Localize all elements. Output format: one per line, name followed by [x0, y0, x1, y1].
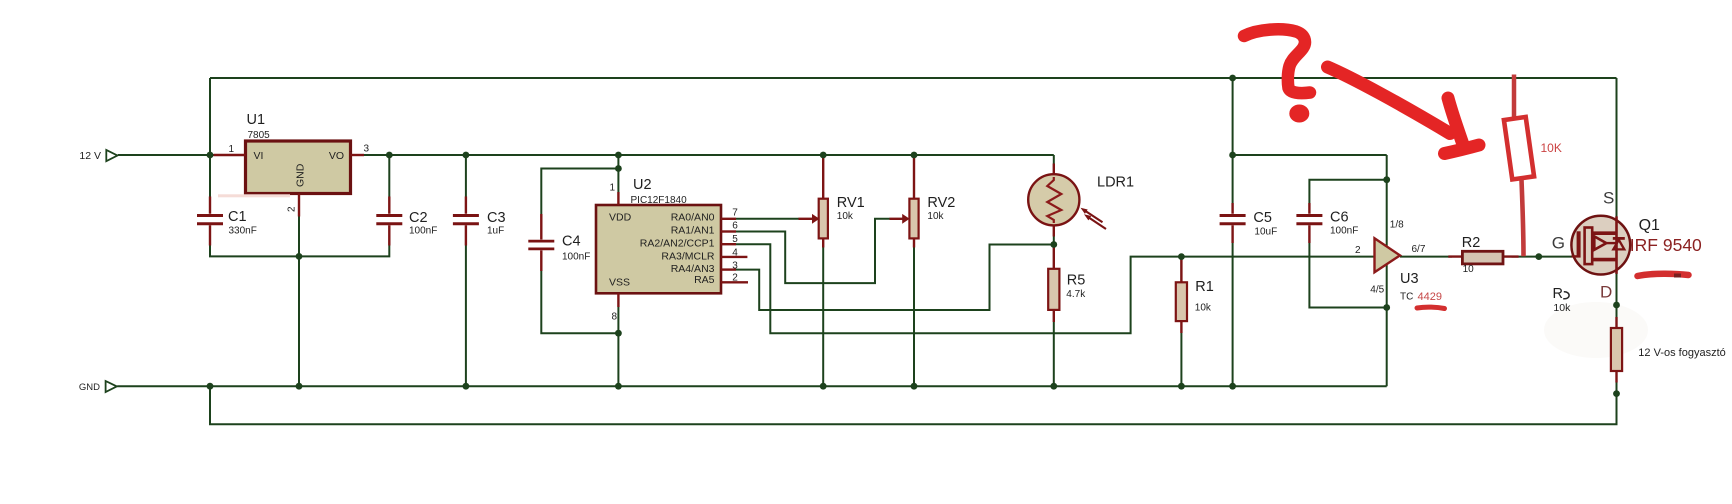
wire C3 vertical: [465, 155, 467, 386]
wire load bottom: [1616, 383, 1618, 425]
svg-text:6: 6: [732, 221, 738, 232]
wire S drop from top rail to Q1 source: [1616, 78, 1618, 220]
wire 12V input to U1: [118, 154, 214, 156]
resistor load 12V consumer: [1611, 317, 1726, 383]
erased element residue above C1 label: [218, 194, 290, 197]
wire R5 to GND rail: [1053, 322, 1055, 386]
wire bottom return loop: [210, 386, 1617, 424]
svg-text:RA5: RA5: [694, 274, 715, 286]
pin 2 U2 stub unconnected: [721, 281, 748, 283]
transistor Q1 IRF9540: [1552, 188, 1702, 301]
wire U2 pin7 to RV1 wiper: [736, 218, 799, 220]
pin 2 U1 GND stub: [298, 194, 300, 217]
svg-text:100nF: 100nF: [409, 226, 437, 237]
svg-text:1/8: 1/8: [1390, 219, 1404, 230]
junction load bottom node: [1613, 390, 1620, 397]
svg-text:S: S: [1603, 188, 1614, 207]
wire C1 top from 12V node: [209, 155, 211, 197]
wire R1 top: [1180, 257, 1182, 283]
svg-text:4/5: 4/5: [1370, 284, 1384, 295]
svg-text:100nF: 100nF: [1330, 226, 1358, 237]
svg-text:3: 3: [732, 261, 738, 272]
wire Q1 drain down to load: [1616, 271, 1618, 317]
wire U1 pin2 to GND rail: [298, 217, 300, 387]
svg-text:2: 2: [287, 206, 298, 212]
svg-text:RA1/AN1: RA1/AN1: [671, 225, 715, 237]
svg-text:TC: TC: [1400, 291, 1413, 302]
svg-text:7: 7: [732, 208, 738, 219]
pin 3 U1 VO stub: [351, 154, 365, 156]
junction GND R5: [1050, 383, 1057, 390]
svg-text:G: G: [1552, 234, 1565, 253]
svg-text:7805: 7805: [248, 130, 271, 141]
resistor R5: [1048, 245, 1086, 323]
wire C4 top link to VDD: [541, 169, 618, 215]
wire 12V branch to U3 supply: [1233, 154, 1387, 156]
capacitor C3: [453, 197, 506, 246]
svg-text:6/7: 6/7: [1412, 244, 1426, 255]
svg-text:C3: C3: [487, 210, 506, 226]
junction GND C3: [463, 383, 470, 390]
svg-text:4.7k: 4.7k: [1066, 289, 1086, 300]
junction C5 at top rail: [1229, 75, 1236, 82]
svg-text:5: 5: [732, 234, 738, 245]
svg-text:RA3/MCLR: RA3/MCLR: [661, 250, 715, 262]
wire U3 supply vertical: [1386, 155, 1388, 386]
wire LDR bottom to node: [1053, 237, 1055, 245]
annotation red wire above drawn resistor: [1512, 75, 1517, 118]
pin 8 U2 VSS stub: [617, 293, 619, 307]
wire U2 pin6 to RV2 wiper: [736, 219, 890, 283]
svg-text:10: 10: [1463, 264, 1475, 275]
svg-text:D: D: [1600, 282, 1612, 301]
junction C5 at 12V branch: [1229, 152, 1236, 159]
junction GND C5: [1229, 383, 1236, 390]
svg-text:RV2: RV2: [927, 195, 955, 211]
wire C6 loop to U3 supply: [1309, 180, 1386, 308]
wire R2 to Q1 gate: [1512, 256, 1572, 258]
wire U2 VDD to 5V rail: [617, 155, 619, 192]
svg-text:U1: U1: [247, 112, 266, 128]
svg-text:RA0/AN0: RA0/AN0: [671, 212, 715, 224]
svg-text:C1: C1: [228, 209, 247, 225]
svg-text:10k: 10k: [1553, 302, 1571, 314]
junction GND VSS: [615, 383, 622, 390]
potentiometer RV1: [812, 157, 865, 248]
svg-text:LDR1: LDR1: [1097, 175, 1134, 191]
junction U1 pin2 at C1 C2 link: [296, 253, 303, 260]
svg-text:VI: VI: [254, 150, 264, 162]
junction GND R1: [1178, 383, 1185, 390]
annotation hand drawn resistor 10K: [1504, 117, 1534, 179]
svg-text:VDD: VDD: [609, 212, 632, 224]
junction C6 top at U3 supply: [1383, 176, 1390, 183]
svg-text:R: R: [1553, 286, 1563, 302]
annotation red question mark: [1244, 29, 1310, 93]
wire C2 top from 5V rail: [388, 155, 390, 197]
resistor R3 label remnant: [1553, 286, 1572, 314]
wire RV1 vertical: [822, 248, 824, 387]
wire C4 bottom link to VSS: [541, 271, 618, 333]
wire GND rail: [117, 385, 1387, 387]
junction GND RV2: [911, 383, 918, 390]
photoresistor LDR1: [1028, 164, 1134, 237]
resistor R1: [1176, 257, 1214, 333]
svg-text:R2: R2: [1462, 235, 1481, 251]
wire C1 C2 bottom link: [210, 246, 389, 257]
regulator U1 7805: [246, 112, 351, 194]
svg-text:2: 2: [1355, 245, 1361, 256]
annotation red underline below 4429: [1417, 307, 1445, 308]
wire 5V rail from U1 VO to LDR: [364, 154, 1054, 156]
svg-text:330nF: 330nF: [229, 226, 257, 237]
wire C5 vertical: [1232, 78, 1234, 386]
svg-text:10uF: 10uF: [1254, 227, 1277, 238]
wire LDR top: [1053, 155, 1055, 164]
svg-text:3: 3: [364, 144, 370, 155]
pin 1 U2 VDD stub: [617, 192, 619, 205]
svg-text:C5: C5: [1253, 210, 1272, 226]
svg-text:100nF: 100nF: [562, 251, 590, 262]
svg-text:C6: C6: [1330, 210, 1349, 226]
junction drain node: [1613, 302, 1620, 309]
svg-text:PIC12F1840: PIC12F1840: [631, 195, 688, 206]
potentiometer RV2: [902, 157, 955, 248]
svg-text:VSS: VSS: [609, 276, 630, 288]
wire R1 bottom to GND rail: [1180, 333, 1182, 386]
svg-text:12 V: 12 V: [79, 150, 101, 162]
wire RV2 vertical: [913, 248, 915, 387]
buffer U3 TC4429: [1355, 219, 1442, 303]
junction C2 top: [386, 152, 393, 159]
svg-text:C4: C4: [562, 234, 581, 250]
svg-text:10k: 10k: [927, 211, 944, 222]
wire 12V top rail: [210, 77, 1617, 79]
junction C4 bottom at VSS: [615, 330, 622, 337]
wire top rail left drop to 12V node: [209, 78, 211, 155]
capacitor C6: [1296, 203, 1358, 243]
node GND input terminal: [79, 381, 117, 393]
junction 12V node at U1 input: [207, 152, 214, 159]
wire U2 VSS to GND rail: [617, 307, 619, 386]
svg-text:GND: GND: [79, 382, 100, 393]
svg-text:4: 4: [732, 248, 738, 259]
annotation red arrow shaft: [1328, 67, 1451, 134]
junction C3 top: [463, 152, 470, 159]
junction C6 bottom at U3 supply: [1383, 304, 1390, 311]
junction gate node: [1535, 253, 1542, 260]
pin 7 U2 stub: [721, 218, 736, 220]
svg-text:RA2/AN2/CCP1: RA2/AN2/CCP1: [640, 237, 715, 249]
capacitor C1: [197, 197, 257, 246]
svg-text:R5: R5: [1067, 272, 1086, 288]
junction C4 top at VDD: [615, 165, 622, 172]
junction LDR R5 divider node: [1050, 241, 1057, 248]
svg-text:1uF: 1uF: [487, 226, 504, 237]
resistor R2: [1448, 235, 1518, 275]
pin 4 U2 stub unconnected: [721, 256, 747, 258]
annotation red arrow head: [1445, 98, 1480, 154]
annotation red question mark dot: [1289, 105, 1309, 123]
annotation red scribble at drain: [1638, 274, 1689, 276]
svg-text:C2: C2: [409, 210, 428, 226]
svg-text:RV1: RV1: [837, 195, 865, 211]
svg-text:4429: 4429: [1418, 291, 1442, 303]
wire U2 pin3 to LDR divider node: [736, 245, 1054, 311]
svg-text:10K: 10K: [1541, 141, 1562, 155]
junction GND rail branch down: [207, 383, 214, 390]
svg-text:U2: U2: [633, 177, 652, 193]
pin 3 U2 stub: [721, 268, 736, 270]
svg-text:12 V-os fogyasztó: 12 V-os fogyasztó: [1638, 347, 1725, 359]
pin 1 U1 VI stub: [214, 154, 246, 156]
junction VDD at 5V rail: [615, 152, 622, 159]
svg-text:8: 8: [611, 312, 617, 323]
erased resistor smudge near Q1: [1544, 302, 1648, 358]
wire U3 output to R2: [1400, 256, 1452, 258]
pin 6 U2 stub: [721, 230, 736, 232]
svg-text:GND: GND: [295, 163, 307, 187]
wire U2 pin5 to U3 input net: [736, 244, 1375, 333]
svg-text:Q1: Q1: [1639, 217, 1660, 234]
annotation red wire from drawn resistor to gate: [1522, 180, 1524, 256]
svg-text:10k: 10k: [837, 211, 854, 222]
junction RV2 top: [911, 152, 918, 159]
junction GND RV1: [820, 383, 827, 390]
svg-text:1: 1: [609, 183, 615, 194]
capacitor C4: [528, 214, 590, 271]
junction R1 top at input net: [1178, 253, 1185, 260]
svg-text:1: 1: [228, 144, 234, 155]
svg-text:U3: U3: [1400, 271, 1419, 287]
capacitor C2: [376, 197, 437, 246]
node 12V input terminal: [79, 150, 117, 162]
svg-text:IRF 9540: IRF 9540: [1630, 235, 1702, 255]
svg-text:R1: R1: [1195, 279, 1214, 295]
svg-text:10k: 10k: [1195, 303, 1212, 314]
capacitor C5: [1220, 203, 1278, 243]
svg-text:2: 2: [732, 272, 738, 283]
microcontroller U2 PIC12F1840: [596, 177, 721, 293]
junction RV1 top: [820, 152, 827, 159]
junction GND U1 pin2: [296, 383, 303, 390]
pin 5 U2 stub: [721, 243, 736, 245]
svg-text:VO: VO: [329, 150, 344, 162]
